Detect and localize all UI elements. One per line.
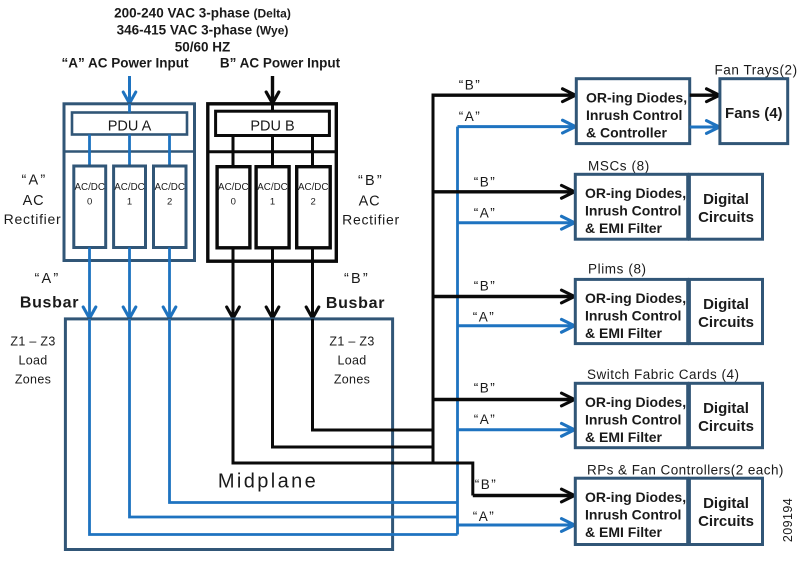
svg-text:& EMI Filter: & EMI Filter [585,524,663,540]
svg-text:Circuits: Circuits [698,513,754,530]
wire: A busbar drop 1 with arrow into midplane [123,248,136,319]
svg-text:209194: 209194 [781,498,795,542]
svg-text:Inrush Control: Inrush Control [585,203,681,219]
box: AC/DC 2 (PDU A) [154,166,187,248]
label: Z1 - Z3 Load Zones (right) [329,335,374,387]
svg-text:Fans (4): Fans (4) [725,105,783,122]
wire: B feed to RPs block [473,489,575,502]
wire: PDU B stub to AC/DC 1 [271,136,274,167]
svg-text:AC/DC: AC/DC [298,182,328,193]
svg-text:1: 1 [270,197,275,208]
svg-text:“B”: “B” [459,78,482,93]
wire: B busbar drop 0 with arrow into midplane [227,248,240,318]
box: RPs OR-ing Diodes block [575,478,687,544]
svg-text:Z1 – Z3: Z1 – Z3 [329,335,374,349]
svg-text:Digital: Digital [703,296,749,313]
wire: PDU A internal divider [64,150,195,153]
svg-text:Digital: Digital [703,400,749,417]
svg-text:Rectifier: Rectifier [342,212,400,228]
svg-text:AC: AC [23,193,45,209]
svg-text:B” AC Power Input: B” AC Power Input [220,56,341,71]
label: "B" Busbar [326,271,385,312]
box: Fans (4) [720,79,788,144]
wire: A feed to RPs block [458,519,575,532]
svg-text:“B”: “B” [474,175,497,190]
svg-text:& Controller: & Controller [586,125,667,141]
wire: B busbar drop 1 with arrow into midplane [266,248,279,318]
wire: A distribution bus vertical [456,127,459,535]
svg-text:RPs & Fan Controllers(2 each): RPs & Fan Controllers(2 each) [587,463,784,478]
wire: PDU A stub to AC/DC 2 [168,135,171,167]
svg-text:PDU B: PDU B [250,119,294,135]
label: Z1 - Z3 Load Zones (left) [10,335,55,387]
svg-text:Busbar: Busbar [20,295,79,312]
wire: A input arrow into PDU A [123,76,136,103]
wire: A feed to Fans OR-ing block [458,120,576,133]
svg-text:AC/DC: AC/DC [114,182,144,193]
box: AC/DC 1 (PDU A) [114,166,146,248]
svg-text:Digital: Digital [703,495,749,512]
svg-text:“B”: “B” [358,173,384,189]
wire: black arrow OR-ing to Fans [690,89,720,102]
box: Plims OR-ing Diodes block [575,279,687,343]
wire: B input arrow into PDU B [266,76,279,103]
svg-text:Fan Trays(2): Fan Trays(2) [715,63,798,78]
svg-text:“A”: “A” [474,412,497,427]
svg-text:0: 0 [231,197,236,208]
wire: PDU A stub to AC/DC 0 [88,135,91,167]
svg-text:OR-ing Diodes,: OR-ing Diodes, [585,489,686,505]
box: SFC Digital Circuits [689,383,762,447]
svg-text:Load: Load [18,354,47,368]
svg-text:Circuits: Circuits [698,209,754,226]
box: PDU A outer enclosure [64,104,195,261]
wire: A feed to Plims block [458,319,575,332]
svg-text:Switch Fabric Cards (4): Switch Fabric Cards (4) [587,367,740,382]
wire: PDU B stub to AC/DC 0 [232,136,235,167]
svg-text:200-240 VAC 3-phase (Delta): 200-240 VAC 3-phase (Delta) [114,6,291,21]
wire: B feed to Plims block [432,290,575,303]
svg-text:OR-ing Diodes,: OR-ing Diodes, [585,290,686,306]
svg-text:& EMI Filter: & EMI Filter [585,325,663,341]
label: "A" Busbar [20,271,79,312]
svg-text:Inrush Control: Inrush Control [585,308,681,324]
svg-text:“A”: “A” [459,109,482,124]
wire: PDU B stub to AC/DC 2 [311,136,314,167]
svg-text:“B”: “B” [474,381,497,396]
box: AC/DC 1 (PDU B) [256,167,289,248]
box: RPs Digital Circuits [689,478,762,544]
box: AC/DC 0 (PDU B) [217,167,250,248]
wire: blue arrow OR-ing to Fans [690,121,720,134]
svg-text:& EMI Filter: & EMI Filter [585,429,663,445]
svg-text:0: 0 [87,197,92,208]
svg-text:50/60 HZ: 50/60 HZ [175,40,231,55]
svg-text:“B”: “B” [344,271,370,287]
svg-text:Inrush Control: Inrush Control [585,507,681,523]
svg-text:AC/DC: AC/DC [257,182,287,193]
wire: stub from A arrow to PDU A label box [128,104,131,113]
label: "B" AC Rectifier [342,173,400,228]
svg-text:Busbar: Busbar [326,295,385,312]
box: Fans OR-ing Diodes block [576,79,689,144]
svg-text:MSCs (8): MSCs (8) [588,159,650,174]
wire: A busbar drop 0 with arrow into midplane [83,248,96,319]
svg-text:“B”: “B” [475,477,498,492]
svg-text:“A” AC Power Input: “A” AC Power Input [62,56,190,71]
svg-text:Midplane: Midplane [218,471,318,493]
wire: A zone wire 1 inside midplane (x=129.5 down, right at y=517.5) [130,319,458,517]
box: MSC OR-ing Diodes block [575,174,687,239]
svg-text:1: 1 [127,197,132,208]
svg-text:OR-ing Diodes,: OR-ing Diodes, [585,185,686,201]
box: PDU B label box [216,111,330,135]
box: AC/DC 0 (PDU A) [74,166,106,248]
svg-text:Load: Load [337,354,366,368]
svg-text:“A”: “A” [22,173,48,189]
svg-text:Inrush Control: Inrush Control [586,107,682,123]
wire: B zone wire 0 inside midplane (x=233 down, right at y=461.3, jog to RPs B) [233,319,473,496]
svg-text:Plims (8): Plims (8) [588,262,647,277]
wire: PDU A stub to AC/DC 1 [128,135,131,167]
svg-text:Zones: Zones [334,373,370,387]
svg-text:“A”: “A” [474,206,497,221]
svg-text:Zones: Zones [15,373,51,387]
svg-text:2: 2 [311,197,316,208]
wire: PDU B internal divider [208,150,336,153]
svg-text:“A”: “A” [473,509,496,524]
wire: A feed to MSC block [458,216,575,229]
wire: A zone wire 2 inside midplane (x=169.5 down, right at y=501.5) [170,319,458,503]
svg-text:Rectifier: Rectifier [4,211,62,227]
svg-text:OR-ing Diodes,: OR-ing Diodes, [585,394,686,410]
box: AC/DC 2 (PDU B) [297,167,331,248]
wire: A busbar drop 2 with arrow into midplane [163,248,176,319]
wire: A feed to Switch Fabric block [458,423,575,436]
svg-text:“A”: “A” [35,271,61,287]
wire: B feed to Switch Fabric block [432,393,575,406]
svg-text:346-415 VAC 3-phase (Wye): 346-415 VAC 3-phase (Wye) [117,23,289,38]
wire: B feed to MSC block [432,185,575,198]
svg-text:“A”: “A” [473,310,496,325]
svg-text:AC: AC [359,194,381,210]
svg-text:AC/DC: AC/DC [218,182,248,193]
svg-text:Digital: Digital [703,191,749,208]
box: PDU B outer enclosure [208,104,336,261]
wire: B busbar drop 2 with arrow into midplane [306,248,319,318]
wire: B feed to Fans OR-ing block [432,89,576,102]
svg-text:Circuits: Circuits [698,314,754,331]
wire: B distribution bus vertical [432,95,435,463]
box: PDU A label box [72,113,187,135]
wire: stub from B arrow to PDU B label box [271,104,274,111]
wire: B zone wire 2 inside midplane (x=312.5 down, right at y=427) [313,319,434,430]
wire: B zone wire 1 inside midplane (x=272.5 down, right at y=448) [273,319,434,447]
svg-text:PDU A: PDU A [108,119,152,135]
svg-text:AC/DC: AC/DC [154,182,184,193]
svg-text:Inrush Control: Inrush Control [585,412,681,428]
box: MSC Digital Circuits [689,174,762,239]
svg-text:AC/DC: AC/DC [74,182,104,193]
box: SFC OR-ing Diodes block [575,383,687,447]
wire: A zone wire 0 inside midplane (x=89.5 down, right at y=535) [90,319,458,535]
label: "A" AC Rectifier [4,173,62,228]
svg-text:2: 2 [167,197,172,208]
svg-text:OR-ing Diodes,: OR-ing Diodes, [586,90,687,106]
svg-text:Circuits: Circuits [698,418,754,435]
svg-text:& EMI Filter: & EMI Filter [585,220,663,236]
box: Midplane [65,319,392,550]
svg-text:Z1 – Z3: Z1 – Z3 [10,335,55,349]
box: Plims Digital Circuits [689,279,762,343]
svg-text:“B”: “B” [474,279,497,294]
